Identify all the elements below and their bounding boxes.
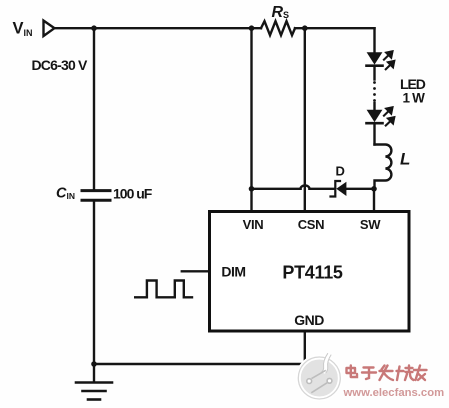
svg-text:D: D: [336, 164, 345, 179]
svg-text:SW: SW: [360, 217, 381, 232]
svg-text:IN: IN: [67, 191, 76, 201]
svg-text:www.elecfans.com: www.elecfans.com: [343, 387, 445, 399]
svg-text:L: L: [400, 150, 410, 169]
svg-text:GND: GND: [294, 312, 324, 328]
svg-text:PT4115: PT4115: [282, 263, 343, 283]
svg-text:CSN: CSN: [298, 217, 325, 232]
svg-text:R: R: [272, 4, 284, 21]
svg-text:DC6-30 V: DC6-30 V: [32, 57, 89, 73]
svg-text:DIM: DIM: [221, 264, 245, 280]
svg-text:100 uF: 100 uF: [113, 186, 153, 202]
svg-text:V: V: [13, 20, 24, 38]
svg-text:1 W: 1 W: [403, 91, 426, 106]
svg-text:S: S: [283, 10, 289, 20]
svg-text:VIN: VIN: [243, 217, 264, 232]
svg-text:IN: IN: [24, 28, 33, 38]
svg-text:C: C: [56, 186, 67, 202]
